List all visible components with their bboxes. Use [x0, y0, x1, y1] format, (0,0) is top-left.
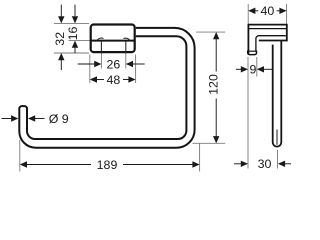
26 dim tails [78, 63, 95, 65]
16 top arrow (down) [72, 16, 78, 23]
32 top arrow (down) [58, 16, 64, 23]
48 dim line segments [97, 79, 105, 81]
120 bottom arrow (down) [213, 136, 219, 143]
plate top extension [54, 22, 89, 24]
40 left arrow (left-pointing) [248, 8, 255, 14]
arm second line [249, 28, 286, 30]
svg-text:26: 26 [107, 57, 121, 71]
ring bar inner seam [276, 130, 278, 145]
extension lines (thin gray) [20, 23, 225, 171]
30 left arrow (right-pointing) [241, 161, 248, 167]
9 left arrow (right-pointing) [241, 66, 248, 72]
tube side silhouettes inside plate [101, 42, 125, 52]
189 left arrow (left-pointing) [20, 161, 27, 167]
tube curl hints inside plate [97, 38, 129, 40]
32 dim vertical line [60, 5, 62, 17]
hook foot inner line [248, 50, 257, 52]
hook foot cap [248, 51, 257, 55]
svg-text:40: 40 [261, 4, 275, 18]
189 extension lines [19, 140, 21, 172]
30 dim tails [234, 163, 241, 165]
plate inner line (tube behind plate) [92, 40, 135, 42]
svg-text:Ø 9: Ø 9 [49, 112, 69, 126]
diameter dim tails [2, 118, 12, 120]
dimension lines (black) [2, 5, 217, 165]
120 top extension [196, 31, 225, 33]
120 top arrow (up) [213, 32, 219, 39]
16 bottom arrow (up) [72, 41, 78, 48]
wall plate front view [91, 25, 135, 53]
40 right arrow (right-pointing) [279, 8, 286, 14]
dimension texts side view [249, 4, 274, 171]
arm bottom edge [259, 40, 287, 42]
arm top edge [248, 24, 286, 26]
svg-text:189: 189 [97, 158, 118, 172]
dia9 left arrow (right-pointing) [11, 115, 18, 121]
48 left arrow (left-pointing) [90, 76, 97, 82]
40 dim tails [255, 10, 258, 12]
48 right arrow (right-pointing) [128, 76, 135, 82]
30 right extension [277, 150, 279, 169]
26 right arrow (left-pointing) [126, 61, 133, 67]
30 right arrow (left-pointing) [278, 161, 285, 167]
9 right extension [256, 57, 258, 77]
hook outer edge [247, 24, 249, 54]
32 bottom arrow (up) [58, 53, 64, 60]
32 bottom extension (plate bottom level) [54, 52, 89, 54]
48 extension lines [89, 55, 91, 84]
26 left arrow (right-pointing) [94, 61, 101, 67]
svg-text:120: 120 [207, 74, 221, 95]
120 dim vertical segments [215, 39, 217, 72]
arm third line with left fillet down to hook inner edge [256, 36, 286, 51]
svg-text:48: 48 [107, 73, 121, 87]
extension lines side view [248, 4, 287, 169]
ring outline (towel ring front view) [19, 28, 194, 148]
side view bracket (wall mount profile) [248, 24, 287, 147]
dia9 right arrow (left-pointing) [28, 115, 35, 121]
16 bottom extension (plate inner line level) [69, 40, 91, 42]
hanging ring bar with rounded bottom [273, 41, 282, 147]
svg-text:9: 9 [249, 63, 256, 77]
dimension texts front view [49, 27, 221, 172]
arrowheads side view [241, 8, 287, 167]
40 extension lines [247, 4, 249, 24]
26 extension lines [100, 43, 102, 69]
9 right arrow (left-pointing) [257, 66, 264, 72]
9/30 shared left extension [247, 57, 249, 169]
9 dim tails [236, 68, 241, 70]
arrowheads front view [11, 16, 219, 168]
120 bottom extension [193, 142, 226, 144]
svg-text:16: 16 [66, 27, 80, 41]
189 right arrow (right-pointing) [192, 161, 199, 167]
16 dim vertical line [74, 5, 76, 17]
right (wall) edge [286, 24, 288, 42]
dimension lines side view [234, 11, 291, 164]
svg-text:30: 30 [258, 157, 272, 171]
189 dim line segments [27, 164, 91, 166]
